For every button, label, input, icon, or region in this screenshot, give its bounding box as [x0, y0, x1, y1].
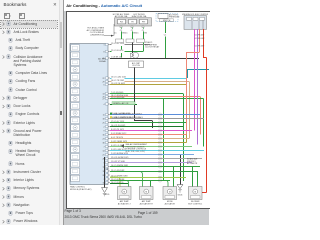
- svg-text:0.5: 0.5: [136, 32, 139, 34]
- svg-text:ACTUATOR RT: ACTUATOR RT: [140, 202, 154, 205]
- svg-text:18: 18: [102, 118, 104, 120]
- svg-text:2 0.35 BU/WH 5078: 2 0.35 BU/WH 5078: [111, 152, 128, 154]
- wire 6021: [110, 125, 183, 127]
- svg-text:GREEN = A/C ON: GREEN = A/C ON: [113, 102, 129, 105]
- wire: [132, 42, 134, 53]
- clutch L1: [131, 53, 135, 57]
- svg-text:150: 150: [105, 168, 108, 170]
- wire: [110, 80, 189, 82]
- svg-text:C2: C2: [164, 34, 166, 36]
- wire: [189, 81, 191, 138]
- svg-text:7 0.5 GN 5065: 7 0.5 GN 5065: [111, 91, 123, 93]
- svg-text:HVAC CONTROL HEAD SIGNALS: HVAC CONTROL HEAD SIGNALS: [114, 116, 144, 119]
- sidebar header: [4, 2, 27, 7]
- bookmarks sidebar: [0, 0, 63, 225]
- svg-text:F23: F23: [120, 21, 123, 23]
- svg-text:SWITCH: SWITCH: [163, 19, 171, 21]
- ground G305: [102, 187, 108, 192]
- wire: [186, 84, 188, 142]
- wire: [110, 57, 199, 59]
- wire 5081: [110, 165, 200, 167]
- svg-text:0.5 PK 439: 0.5 PK 439: [195, 34, 204, 36]
- sidebar toolbar: [4, 13, 10, 19]
- wire: [104, 157, 106, 188]
- svg-text:10 0.5 GN/WH 5081: 10 0.5 GN/WH 5081: [111, 164, 128, 166]
- svg-text:1 0.8 BK 150: 1 0.8 BK 150: [111, 56, 122, 58]
- wire: [121, 42, 123, 57]
- svg-text:15 0.35 YE 6022: 15 0.35 YE 6022: [111, 82, 125, 84]
- schematic page: [66, 11, 210, 209]
- underhood fuse block: [115, 17, 152, 25]
- wire: [197, 29, 199, 145]
- wire: [134, 119, 152, 121]
- wire 5076: [110, 145, 192, 147]
- svg-text:25 0.5 DG 5084: 25 0.5 DG 5084: [111, 178, 124, 180]
- wire 5084: [110, 179, 170, 181]
- svg-text:14 0.35 DG 6021: 14 0.35 DG 6021: [111, 124, 125, 126]
- wire: [163, 98, 165, 180]
- svg-text:G306: G306: [178, 194, 183, 196]
- title bar: [64, 0, 209, 11]
- wire: [183, 93, 185, 181]
- svg-text:(4.8L, 5.3L, 6.0L, 6.2L): (4.8L, 5.3L, 6.0L, 6.2L): [126, 150, 146, 152]
- wire: [110, 95, 200, 97]
- svg-text:5 0.35 YE/BK 5075: 5 0.35 YE/BK 5075: [111, 140, 127, 142]
- svg-text:GN: GN: [144, 32, 147, 34]
- wire: [110, 97, 204, 99]
- wire 5079: [110, 157, 202, 159]
- svg-text:C1: C1: [120, 29, 122, 31]
- wire: [187, 68, 210, 70]
- svg-text:6 0.5 TN 5074: 6 0.5 TN 5074: [111, 136, 123, 138]
- wire 5070: [110, 117, 204, 119]
- panel divider: [62, 0, 65, 225]
- svg-text:MOT CONTROL: MOT CONTROL: [188, 203, 202, 205]
- svg-text:CLUTCH RELAY: CLUTCH RELAY: [145, 45, 160, 48]
- svg-text:13: 13: [102, 93, 104, 95]
- actuator motor AIR TEMP ACTUATOR LT: [118, 186, 132, 199]
- wire: [186, 51, 199, 53]
- pin C2 of fuse block: [131, 26, 133, 28]
- wire 5073: [110, 113, 200, 115]
- wire 5080: [110, 161, 192, 163]
- wire: [200, 96, 202, 134]
- wire: [121, 27, 123, 38]
- svg-text:G305: G305: [105, 194, 110, 196]
- wire 5082: [110, 170, 198, 172]
- svg-text:29: 29: [102, 81, 104, 83]
- svg-text:C1: C1: [142, 29, 144, 31]
- svg-text:8: 8: [104, 51, 105, 53]
- pin C1 of fuse block: [120, 26, 122, 28]
- svg-text:23: 23: [102, 138, 104, 140]
- inline connector row X50A: [116, 39, 124, 43]
- svg-text:11 0.35 VT 5080: 11 0.35 VT 5080: [111, 160, 125, 162]
- wire 5078: [110, 153, 194, 155]
- svg-text:0.5 PK 539: 0.5 PK 539: [195, 45, 204, 47]
- svg-text:21: 21: [102, 154, 104, 156]
- fuse F23: [118, 19, 126, 24]
- wire: [143, 42, 145, 51]
- actuator motor BLOWER MOT CONTROL: [189, 186, 203, 199]
- svg-text:ACTUATOR LT: ACTUATOR LT: [118, 202, 132, 205]
- sidebar scrollbar: [59, 0, 65, 225]
- svg-text:12 0.5 GY 1553: 12 0.5 GY 1553: [111, 42, 124, 44]
- diode D1 + feed line: [104, 34, 114, 36]
- svg-text:9 0.5 RD/BK 5072: 9 0.5 RD/BK 5072: [111, 132, 126, 134]
- wire: [199, 29, 201, 53]
- svg-text:ACTUATOR: ACTUATOR: [165, 202, 176, 205]
- wire: [202, 191, 207, 193]
- wire: [203, 56, 207, 58]
- wire: [192, 166, 194, 186]
- svg-text:F99: F99: [142, 21, 145, 23]
- svg-text:22: 22: [102, 77, 104, 79]
- selected row highlight: [1, 21, 58, 29]
- main viewer: [64, 0, 209, 225]
- svg-text:PRESSURE: PRESSURE: [169, 16, 180, 18]
- wire: [165, 36, 167, 58]
- svg-text:12 0.35 GY/BK 5079: 12 0.35 GY/BK 5079: [111, 156, 128, 158]
- svg-text:SIGNAL: SIGNAL: [99, 59, 106, 62]
- fuse F8: [129, 19, 137, 24]
- actuator motor MODE ACTUATOR: [163, 186, 177, 199]
- svg-text:0.5 RD 442: 0.5 RD 442: [195, 38, 205, 40]
- svg-text:F8: F8: [131, 21, 133, 23]
- svg-text:24 0.5 GN/BK 5083: 24 0.5 GN/BK 5083: [111, 175, 127, 177]
- svg-text:11: 11: [103, 114, 105, 116]
- wire: [110, 92, 183, 94]
- svg-text:0.5: 0.5: [125, 32, 128, 34]
- pin C3 of fuse block: [142, 26, 144, 28]
- wire: [187, 69, 189, 78]
- wire: [180, 154, 182, 184]
- wire: [143, 27, 145, 38]
- svg-text:0.5: 0.5: [114, 32, 117, 34]
- toolbar separator: [0, 19, 58, 22]
- wire: [194, 29, 196, 131]
- wire: [165, 21, 167, 32]
- wire 5071: [110, 129, 192, 131]
- wire: [110, 50, 143, 52]
- svg-text:1: 1: [104, 44, 105, 46]
- fuse F99: [140, 19, 148, 24]
- wire: [110, 77, 187, 79]
- svg-text:23 0.5 GN 5082: 23 0.5 GN 5082: [111, 169, 124, 171]
- svg-text:8 0.35 PK 5071: 8 0.35 PK 5071: [111, 128, 124, 130]
- svg-text:25: 25: [102, 122, 104, 124]
- svg-text:MODULE (W/ AUTO A/C): MODULE (W/ AUTO A/C): [70, 187, 92, 190]
- wire: [132, 42, 134, 53]
- wire: [134, 67, 136, 120]
- wire: [203, 98, 205, 146]
- wire: [197, 171, 199, 186]
- wire 5072: [110, 133, 186, 135]
- wire: [203, 29, 205, 58]
- wire: [110, 103, 137, 105]
- actuator motor AIR TEMP ACTUATOR RT: [140, 186, 154, 199]
- svg-text:16 0.5 TN 1962: 16 0.5 TN 1962: [111, 79, 124, 81]
- svg-text:13 0.5 L-BU 1134: 13 0.5 L-BU 1134: [111, 76, 126, 78]
- inline connector column: [159, 112, 161, 183]
- svg-text:3 0.35 L-BU 5077: 3 0.35 L-BU 5077: [111, 148, 126, 150]
- svg-text:27: 27: [102, 98, 104, 100]
- svg-text:2: 2: [104, 126, 105, 128]
- footer page text: [64, 209, 80, 213]
- wire 5077: [110, 149, 204, 151]
- svg-text:6: 6: [104, 84, 105, 86]
- wire: [110, 43, 150, 45]
- svg-text:C1: C1: [131, 29, 133, 31]
- svg-text:(UNDERHOOD): (UNDERHOOD): [90, 34, 104, 36]
- svg-text:30: 30: [102, 142, 104, 144]
- wire 1553: [110, 121, 186, 123]
- HVAC control module U1: [70, 43, 108, 184]
- wire 5083: [110, 176, 186, 178]
- svg-text:CLUTCH: CLUTCH: [132, 65, 140, 67]
- svg-text:17 0.5 GY 1553: 17 0.5 GY 1553: [111, 120, 124, 122]
- svg-text:HVAC BLOWER RELAY OUTPUT: HVAC BLOWER RELAY OUTPUT: [114, 112, 144, 115]
- wire 5074: [110, 137, 189, 139]
- A/C high pressure switch S1 (dashed option box): [156, 13, 178, 21]
- svg-text:4: 4: [104, 103, 105, 105]
- wire 5075: [110, 141, 187, 143]
- wire: [132, 27, 134, 38]
- wire: [110, 83, 187, 85]
- svg-text:16: 16: [102, 134, 104, 136]
- svg-text:ACTUATOR: ACTUATOR: [187, 162, 198, 165]
- wire 759: [110, 182, 128, 184]
- svg-text:9: 9: [104, 130, 105, 132]
- svg-text:22 0.5 DG 459: 22 0.5 DG 459: [111, 49, 123, 51]
- wire: [152, 120, 154, 128]
- svg-text:7: 7: [104, 146, 105, 148]
- svg-text:26 0.5 DG 759: 26 0.5 DG 759: [111, 181, 123, 183]
- wire: [186, 52, 188, 134]
- wire: [206, 57, 208, 192]
- svg-text:14: 14: [102, 150, 104, 152]
- svg-text:21 0.5 GN 5066: 21 0.5 GN 5066: [111, 96, 124, 98]
- wire drop to actuator 1: [110, 177, 120, 187]
